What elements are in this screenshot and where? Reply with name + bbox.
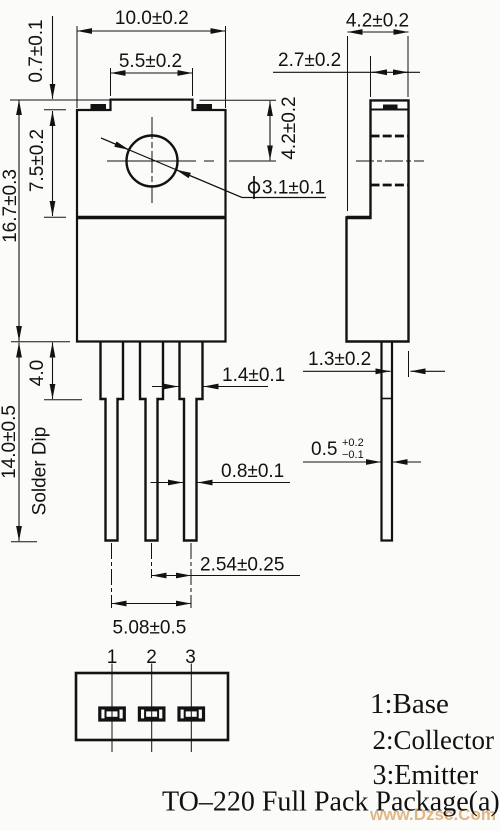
svg-text:4.0: 4.0 bbox=[27, 360, 48, 386]
svg-text:7.5±0.2: 7.5±0.2 bbox=[27, 129, 48, 192]
side view dashed line upper bbox=[371, 135, 409, 138]
svg-text:16.7±0.3: 16.7±0.3 bbox=[0, 169, 21, 243]
svg-text:+0.2: +0.2 bbox=[342, 437, 364, 449]
pad 1 center line bbox=[111, 664, 113, 753]
hole leader arrow upper bbox=[101, 138, 129, 150]
lead 3 center line extension bbox=[190, 543, 192, 608]
hole centerline horizontal bbox=[107, 160, 276, 162]
svg-text:3: 3 bbox=[185, 647, 196, 668]
svg-text:5.08±0.5: 5.08±0.5 bbox=[113, 618, 187, 639]
lead 3 front bbox=[180, 342, 203, 541]
extension line hole-center 4.2 dim bbox=[200, 99, 277, 101]
dimension 0.5 bbox=[303, 461, 381, 463]
hole centerline vertical bbox=[151, 117, 153, 203]
dimension 16.7±0.3 line bbox=[18, 100, 20, 341]
label phi 3.1±0.1 bbox=[249, 176, 260, 199]
svg-text:0.7±0.1: 0.7±0.1 bbox=[26, 19, 47, 82]
svg-text:5.5±0.2: 5.5±0.2 bbox=[119, 51, 182, 72]
svg-text:3.1±0.1: 3.1±0.1 bbox=[262, 178, 325, 199]
svg-text:2.54±0.25: 2.54±0.25 bbox=[200, 555, 284, 576]
svg-text:1.4±0.1: 1.4±0.1 bbox=[222, 365, 285, 386]
side view step thick line bbox=[347, 216, 372, 219]
front view body outline bbox=[77, 100, 226, 342]
dimension 2.7±0.2 bbox=[273, 71, 420, 73]
side view dashed line lower bbox=[371, 184, 409, 187]
side view top inner line bbox=[371, 109, 409, 111]
pad 3 center line bbox=[190, 664, 192, 753]
lead 2 center line extension bbox=[151, 543, 153, 578]
dimension 4.2±0.2 bbox=[348, 31, 409, 33]
front view thick separator line bbox=[77, 216, 226, 220]
svg-text:2.7±0.2: 2.7±0.2 bbox=[278, 50, 341, 71]
dimension 5.5±0.2 bbox=[111, 72, 193, 74]
dimension 1.3±0.2 bbox=[303, 370, 391, 372]
side view outline bbox=[347, 100, 409, 341]
svg-text:0.5: 0.5 bbox=[311, 439, 337, 460]
svg-text:10.0±0.2: 10.0±0.2 bbox=[115, 8, 189, 29]
side view tab black bbox=[383, 105, 398, 110]
mounting hole circle bbox=[127, 136, 178, 187]
front view mounting tab right (black) bbox=[197, 104, 213, 110]
side lead solder tick bbox=[382, 398, 393, 400]
lead 2 front bbox=[140, 342, 163, 541]
svg-text:−0.1: −0.1 bbox=[342, 449, 364, 461]
svg-text:2:Collector: 2:Collector bbox=[373, 725, 494, 755]
dimension 10.0±0.2 bbox=[77, 30, 226, 32]
hole leader arrow lower bbox=[176, 170, 242, 198]
svg-text:2: 2 bbox=[146, 647, 157, 668]
pad 2 center line bbox=[151, 664, 153, 753]
svg-text:1.3±0.2: 1.3±0.2 bbox=[308, 349, 371, 370]
dimension 0.8±0.1 arrows bbox=[151, 482, 184, 484]
svg-text:Solder Dip: Solder Dip bbox=[30, 427, 51, 516]
dimension 4.2±0.2 front vertical bbox=[269, 101, 271, 160]
side view lead bbox=[382, 342, 393, 541]
dimension 0.7±0.1 leader lines bbox=[52, 16, 54, 99]
dimension 7.5±0.2 line bbox=[52, 111, 54, 216]
dimension 1.4±0.1 arrows bbox=[152, 386, 179, 388]
svg-text:1: 1 bbox=[107, 647, 118, 668]
svg-text:4.2±0.2: 4.2±0.2 bbox=[279, 96, 300, 159]
svg-text:0.8±0.1: 0.8±0.1 bbox=[221, 461, 284, 482]
svg-text:4.2±0.2: 4.2±0.2 bbox=[346, 11, 409, 32]
hole leader line bbox=[101, 138, 242, 198]
bottom view rectangle bbox=[76, 673, 228, 740]
pad 2 bbox=[139, 708, 164, 720]
dimension 14.0±0.5 line bbox=[18, 343, 20, 542]
side view center line bbox=[356, 160, 424, 162]
pad 1 bbox=[100, 708, 125, 720]
front view mounting tab left (black) bbox=[91, 104, 107, 110]
svg-text:TO–220 Full Pack Package(a): TO–220 Full Pack Package(a) bbox=[162, 787, 500, 818]
svg-text:14.0±0.5: 14.0±0.5 bbox=[0, 405, 20, 479]
dimension 5.08±0.5 line bbox=[112, 603, 192, 605]
dimension 4.0 line bbox=[52, 343, 54, 400]
lead 1 center line extension bbox=[111, 543, 113, 608]
lead 1 front bbox=[101, 342, 124, 541]
pad 3 bbox=[179, 708, 204, 720]
svg-text:1:Base: 1:Base bbox=[370, 688, 449, 720]
dimension 2.54±0.25 line bbox=[152, 575, 192, 577]
